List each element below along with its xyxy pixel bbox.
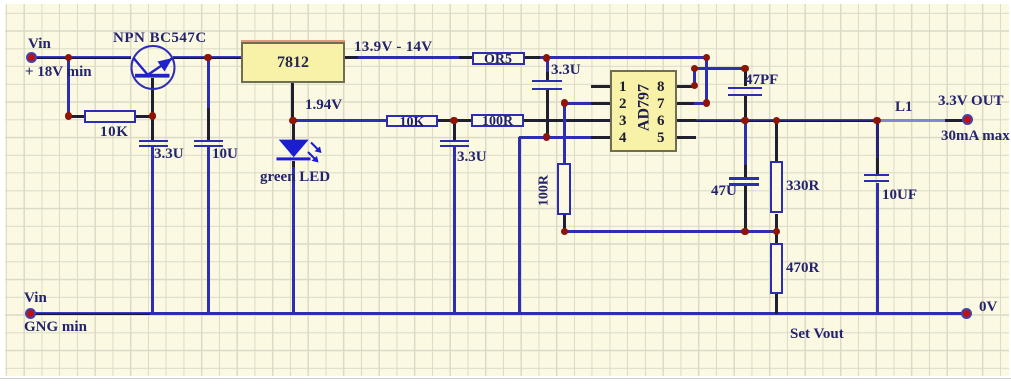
node base divider left xyxy=(65,112,72,119)
label 30mA max xyxy=(941,129,1010,144)
node pin7 xyxy=(703,99,710,106)
wire 470R top pin xyxy=(775,231,778,243)
wire OR5 right pin xyxy=(524,56,540,59)
wire pin 7 stub xyxy=(677,102,696,105)
label 470R xyxy=(786,261,819,276)
wire 470R bottom pin to ground xyxy=(775,294,778,314)
node 47PF branch left xyxy=(691,65,698,72)
pin 3 xyxy=(619,114,627,129)
op-amp U2 AD797 xyxy=(610,70,677,152)
node collector rail xyxy=(204,54,211,61)
node 330R/470R xyxy=(773,228,780,235)
capacitor C1 3.3U xyxy=(139,140,168,143)
label green LED xyxy=(260,170,330,185)
capacitor C5 47PF xyxy=(728,87,762,90)
port 3.3V OUT xyxy=(962,114,973,125)
wire 7812 ground pin xyxy=(291,82,294,121)
node 47PF bottom output row xyxy=(741,117,748,124)
resistor R3 OR5 xyxy=(472,52,525,66)
node rail/pin7 riser xyxy=(703,54,710,61)
wire 3.3U cap3 to pin4 net xyxy=(546,90,549,137)
label 0V xyxy=(979,300,997,315)
LED D1 green xyxy=(270,133,332,167)
label Vin bottom xyxy=(24,291,47,306)
wire transistor base pin down xyxy=(151,78,154,140)
node pin2 xyxy=(561,99,568,106)
wire pin 6 stub xyxy=(677,119,696,122)
node 100R bottom xyxy=(561,228,568,235)
wire LED anode pin xyxy=(292,121,295,140)
port 0V xyxy=(961,308,972,319)
node base divider right xyxy=(149,112,156,119)
label 10K under R1 xyxy=(100,125,128,140)
regulator U1 7812 xyxy=(241,40,345,42)
label 330R xyxy=(786,179,819,194)
wire OR5 left pin xyxy=(459,56,472,59)
wire pin 5 stub xyxy=(677,136,696,139)
wire to pin 4 xyxy=(519,136,610,139)
label 10UF xyxy=(882,188,917,203)
wire node to 3.3U cap2 xyxy=(453,121,456,140)
wire to pin 2 xyxy=(564,102,591,105)
label Vin top xyxy=(28,37,51,52)
wire 7812 output pin xyxy=(345,56,358,59)
node LED anode xyxy=(289,117,296,124)
label 3.3U C1 xyxy=(154,147,184,162)
port GNG bottom xyxy=(25,308,36,319)
node OR5 output xyxy=(543,54,550,61)
label 3.3V OUT xyxy=(938,94,1004,109)
capacitor C4 3.3U xyxy=(532,80,562,83)
pin 1 xyxy=(619,80,627,95)
wire 100R to pin 3 xyxy=(523,119,610,122)
label 47PF xyxy=(745,73,778,88)
label 47U xyxy=(711,184,737,199)
inductor L1 wire xyxy=(878,119,945,122)
pin 2 xyxy=(619,97,627,112)
wire output row down to 47U xyxy=(744,121,747,166)
wire 47PF top pin xyxy=(744,68,747,86)
wire 100R bottom pin xyxy=(563,215,566,231)
wire pin 1 stub xyxy=(591,85,610,88)
label + 18V min xyxy=(25,65,92,80)
wire pin8/47PF horizontal xyxy=(694,67,746,70)
wire Vin port to transistor base rail xyxy=(33,56,131,59)
wire pin4 net down to ground xyxy=(518,137,521,314)
wire output node down to 10UF xyxy=(876,120,879,158)
wire 10UF to ground xyxy=(876,183,879,314)
capacitor C2 10U xyxy=(194,140,223,143)
label 100R vertical xyxy=(537,163,552,219)
wire collector node down to 10U xyxy=(207,58,210,109)
pin 6 xyxy=(657,114,665,129)
wire node to 3.3U cap3 xyxy=(546,58,549,73)
wire transistor collector to 7812 input xyxy=(173,56,241,59)
wire 3.3U cap2 to ground xyxy=(453,147,456,314)
wire feedback row xyxy=(564,230,778,233)
resistor R7 470R xyxy=(770,243,783,294)
capacitor C7 10UF xyxy=(864,174,889,177)
wire Vin node down to 10K xyxy=(67,58,70,117)
label Set Vout xyxy=(790,327,844,342)
node 47U bottom xyxy=(741,228,748,235)
node 330R top xyxy=(773,117,780,124)
wire top rail to pin7 branch xyxy=(547,56,708,59)
label 1.94V xyxy=(305,98,342,113)
capacitor C6 47U xyxy=(729,177,759,180)
resistor R4 100R xyxy=(471,114,524,128)
wire pin 2 stub xyxy=(591,102,610,105)
pin 4 xyxy=(619,131,627,146)
resistor R1 10K xyxy=(84,110,136,123)
label AD797 xyxy=(637,79,652,135)
wire 3.3U cap1 to ground xyxy=(151,147,154,314)
node pin8 xyxy=(691,82,698,89)
wire LED node to 10K xyxy=(293,119,386,122)
label 3.3U C3 xyxy=(457,150,487,165)
node pin4/3.3U xyxy=(543,133,550,140)
wire pin2 down to 100R xyxy=(563,103,566,163)
wire OR5 to node xyxy=(540,56,548,59)
resistor R5 100R vertical xyxy=(557,163,571,215)
label 10U C2 xyxy=(212,147,238,162)
wire 10U cap to ground xyxy=(207,147,210,314)
wire L1 to 3.3V OUT port xyxy=(945,119,967,122)
wire ground rail xyxy=(150,312,967,315)
resistor R6 330R xyxy=(770,161,783,213)
wire 10K to 100R pins xyxy=(438,119,471,122)
capacitor C3 3.3U xyxy=(440,140,469,143)
wire 330R top pin xyxy=(775,121,778,162)
label GNG min xyxy=(24,320,87,335)
pin 8 xyxy=(657,80,665,95)
wire LED cathode to ground xyxy=(292,161,295,168)
label L1 xyxy=(895,100,913,115)
pin 5 xyxy=(657,131,665,146)
wire top rail down to pin7 xyxy=(705,58,708,104)
wire pin 6 to output node xyxy=(696,119,878,122)
wire pin 8 stub xyxy=(677,85,696,88)
wire node to 10K left pin xyxy=(68,115,84,118)
wire 7812 output to OR5 xyxy=(358,56,459,59)
wire 47PF bottom pin xyxy=(744,96,747,121)
transistor Q1 NPN BC547C xyxy=(125,40,185,120)
node 10K/100R/3.3U xyxy=(450,117,457,124)
node Vin rail xyxy=(65,54,72,61)
label 13.9V - 14V xyxy=(354,40,432,55)
port Vin top xyxy=(26,52,37,63)
wire 330R bottom pin xyxy=(775,214,778,232)
label NPN BC547C xyxy=(113,31,207,46)
wire pin 4 stub xyxy=(591,136,610,139)
node 47PF top xyxy=(741,65,748,72)
wire pin8 riser xyxy=(693,68,696,86)
wire 47U bottom pin xyxy=(744,186,747,232)
node L1 input xyxy=(873,117,880,124)
wire GNG port to ground rail xyxy=(31,312,150,315)
resistor R2 10K xyxy=(386,115,438,127)
wire 10K right pin xyxy=(136,115,153,118)
pin 7 xyxy=(657,97,665,112)
label 3.3U C4 xyxy=(551,63,581,78)
